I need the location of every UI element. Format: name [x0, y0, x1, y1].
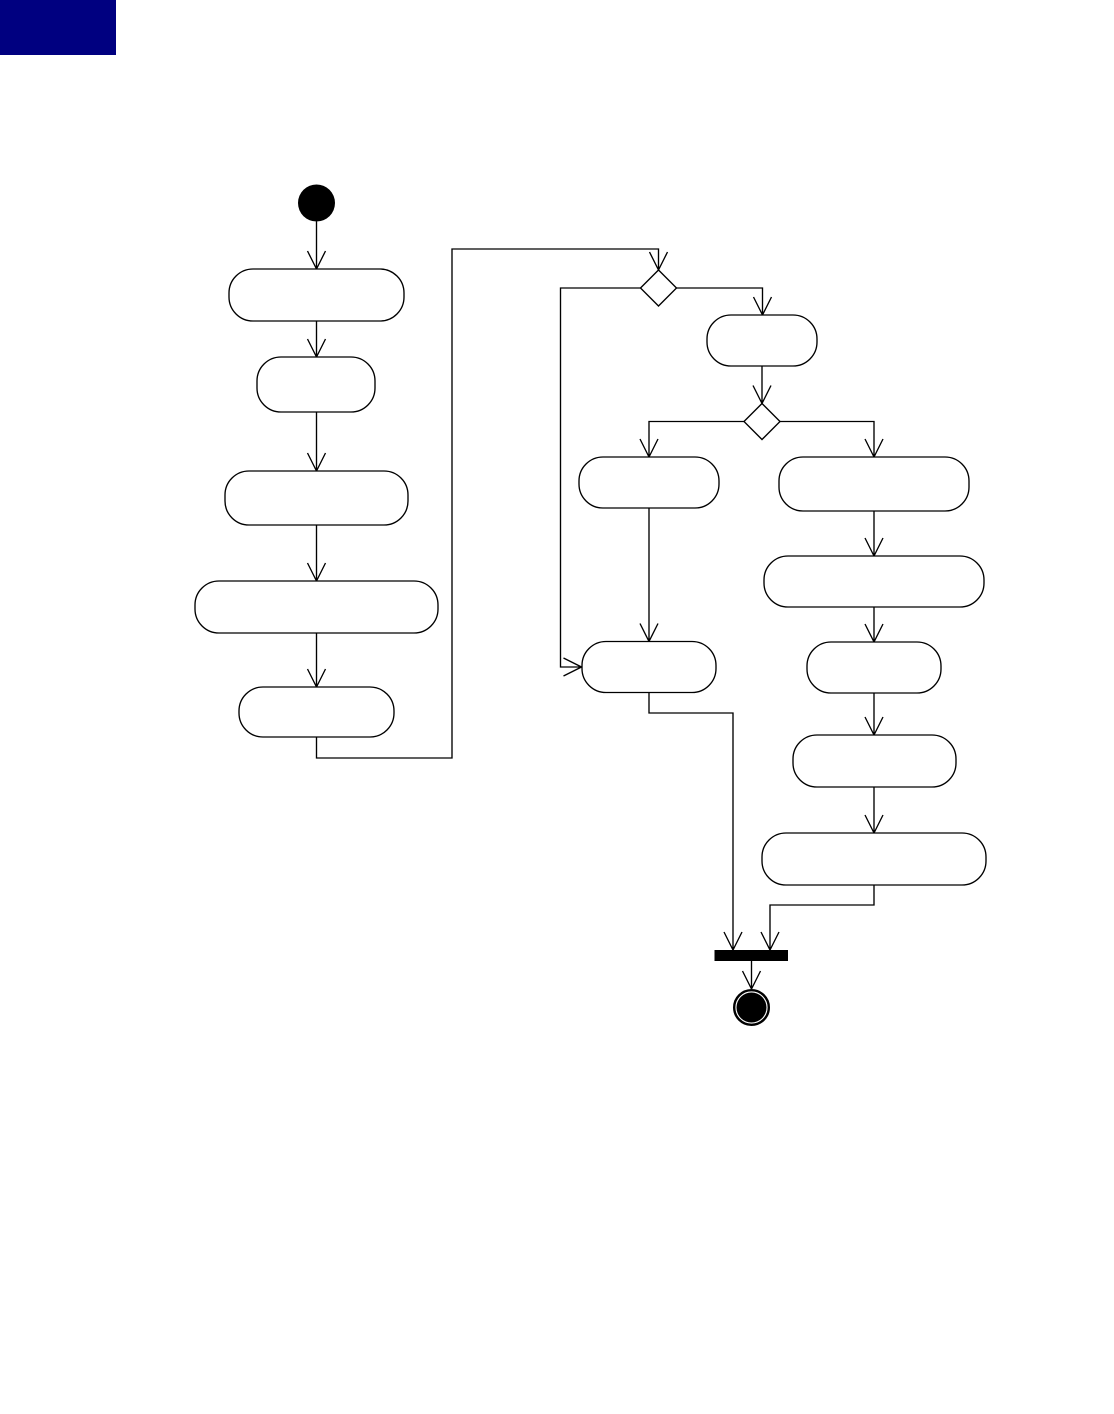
activity node N7	[579, 457, 719, 508]
activity node N11	[807, 642, 941, 693]
wire N5 loop up to decision D1	[317, 249, 668, 758]
wire N3 to N4	[308, 525, 326, 581]
wire N10 to N11	[865, 607, 883, 642]
activity node N2	[257, 357, 375, 412]
activity node N1	[229, 269, 404, 321]
wire initial to node N1	[308, 222, 326, 270]
activity node N8	[779, 457, 969, 511]
activity node N9	[582, 642, 716, 693]
wire N7 to N9	[640, 508, 658, 642]
activity node N6	[707, 315, 817, 366]
wire N11 to N12	[865, 693, 883, 735]
join bar	[715, 950, 789, 961]
wire D1 left branch to node N9	[561, 288, 641, 676]
wire N1 to N2	[308, 321, 326, 357]
wire N13 to join bar	[761, 885, 874, 950]
wire D2 right branch to node N8	[780, 422, 883, 458]
wire N6 to decision D2	[753, 366, 771, 404]
activity node N10	[764, 556, 984, 607]
activity node N12	[793, 735, 956, 787]
header color block	[0, 0, 116, 55]
wire N12 to N13	[865, 787, 883, 833]
wire N9 to join bar	[649, 693, 742, 951]
activity node N5	[239, 687, 394, 737]
wire D2 left branch to node N7	[640, 422, 744, 458]
wire N2 to N3	[308, 412, 326, 471]
wire N8 to N10	[865, 511, 883, 556]
wire N4 to N5	[308, 633, 326, 687]
wire join bar to final node	[743, 961, 761, 989]
decision diamond D1	[641, 270, 677, 306]
initial node (filled circle)	[298, 185, 335, 222]
wire D1 right branch to node N6	[677, 288, 772, 315]
decision diamond D2	[744, 404, 780, 440]
activity node N4	[195, 581, 438, 633]
activity node N13	[762, 833, 986, 885]
activity node N3	[225, 471, 408, 525]
final node (bullseye)	[734, 990, 769, 1025]
